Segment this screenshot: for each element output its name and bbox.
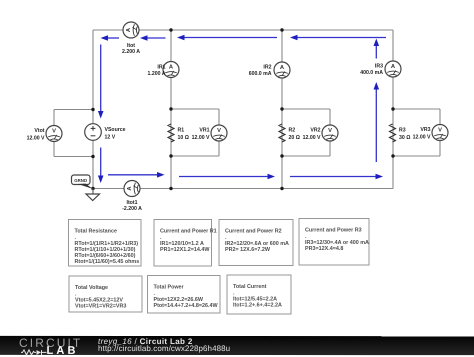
svg-text:IR2: IR2 (263, 65, 271, 71)
svg-text:Current and Power R3: Current and Power R3 (305, 228, 362, 234)
svg-text:Total Voltage: Total Voltage (75, 285, 108, 291)
svg-text:IR1=120/10=1.2 A: IR1=120/10=1.2 A (160, 241, 204, 247)
svg-text:10 Ω: 10 Ω (178, 135, 189, 141)
ammeter IR2 (274, 62, 290, 78)
ground symbol (86, 189, 100, 201)
svg-text:Current and Power R2: Current and Power R2 (225, 229, 282, 235)
svg-text:R2: R2 (289, 128, 296, 134)
svg-text:Ptot=12X2.2=26.6W: Ptot=12X2.2=26.6W (154, 297, 204, 303)
voltmeter VR3 (432, 125, 448, 141)
wire Vtot loop left (53, 110, 55, 157)
current arrow top R1-R2 (left) (177, 35, 277, 41)
current arrow top-left short (left) (101, 35, 120, 41)
current arrow bottom right segment (right) (290, 174, 383, 180)
wire R3 branch vertical (392, 30, 394, 189)
resistor R3 (390, 124, 396, 142)
svg-text:R3: R3 (399, 128, 406, 134)
text box Total Power (148, 276, 221, 314)
svg-text:1.200 A: 1.200 A (148, 71, 166, 77)
current arrow top R2-R3 (left) (290, 35, 386, 41)
svg-text:12 V: 12 V (105, 135, 116, 141)
svg-text:Ptot=14.4+7.2+4.8=26.4W: Ptot=14.4+7.2+4.8=26.4W (154, 303, 219, 309)
text box Total Resistance (69, 220, 142, 267)
wire VR1 loop bottom (171, 155, 219, 157)
wire VR1 loop top (171, 108, 219, 110)
svg-text:VR3: VR3 (420, 127, 430, 133)
svg-text:V: V (217, 128, 221, 134)
svg-text:Total Power: Total Power (154, 285, 185, 291)
ammeter IR3 (385, 61, 401, 77)
voltage source VSource (85, 124, 102, 141)
svg-text:V: V (328, 128, 332, 134)
current arrow top mid-left (left) (140, 35, 166, 41)
svg-text:600.0 mA: 600.0 mA (249, 71, 272, 77)
junction node VSource upper (91, 108, 94, 111)
svg-text:VR2: VR2 (310, 128, 320, 134)
svg-text:400.0 mA: 400.0 mA (360, 70, 383, 76)
junction node R1 lower (169, 154, 172, 157)
wire VR2 loop right (329, 109, 331, 156)
svg-text:IR2=12/20=.6A or 600 mA: IR2=12/20=.6A or 600 mA (225, 241, 289, 247)
svg-text:Current and Power R1: Current and Power R1 (160, 229, 217, 235)
svg-text:Total Current: Total Current (233, 284, 267, 290)
wire VR3 loop right (439, 109, 441, 156)
junction node bottom R2 (280, 187, 283, 190)
svg-text:Vtot=5.45X2.2=12V: Vtot=5.45X2.2=12V (75, 297, 123, 303)
junction node bottom R1 (169, 187, 172, 190)
wire top rail (93, 29, 393, 31)
svg-text:RTot=1/(1/10+1/20+1/30): RTot=1/(1/10+1/20+1/30) (75, 247, 136, 253)
svg-text:PR1=12X1.2=14.4W: PR1=12X1.2=14.4W (160, 247, 210, 253)
resistor R1 (168, 124, 174, 142)
junction node R3 lower (391, 154, 394, 157)
text box Current and Power R3 (299, 219, 369, 266)
svg-text:GRND: GRND (74, 178, 87, 183)
svg-text:IR3=12/30=.4A or 400 mA: IR3=12/30=.4A or 400 mA (305, 240, 369, 246)
wire R2 branch vertical (281, 30, 283, 189)
svg-text:VSource: VSource (105, 127, 126, 133)
wire VR1 loop right (218, 109, 220, 156)
ground GRND tag (72, 175, 94, 189)
junction node top R1 (169, 28, 172, 31)
svg-text:Vtot=VR1=VR2=VR3: Vtot=VR1=VR2=VR3 (75, 304, 126, 310)
ammeter IR1 (163, 62, 179, 78)
wire Vtot loop bottom (54, 156, 93, 158)
wire left branch vertical (92, 30, 94, 189)
current arrow left upper (down) (98, 45, 104, 119)
junction node ground corner (91, 187, 94, 190)
logo CIRCUIT (19, 336, 82, 350)
footer url text (98, 344, 230, 353)
svg-text:12.00 V: 12.00 V (27, 136, 45, 142)
svg-text:20 Ω: 20 Ω (289, 135, 300, 141)
junction node VSource lower (91, 155, 94, 158)
svg-text:RTot=1/(6/60+3/60+2/60): RTot=1/(6/60+3/60+2/60) (75, 253, 136, 259)
svg-text:Itot=1.2+.6+.4=2.2A: Itot=1.2+.6+.4=2.2A (233, 303, 282, 309)
svg-text:VR1: VR1 (199, 128, 209, 134)
junction node R3 upper (391, 107, 394, 110)
svg-text:12.00 V: 12.00 V (192, 135, 210, 141)
footer bar (0, 336, 474, 355)
wire VR2 loop top (282, 108, 330, 110)
svg-text:12.00 V: 12.00 V (413, 135, 431, 141)
svg-text:PR2= 12X.6=7.2W: PR2= 12X.6=7.2W (225, 247, 271, 253)
text box Current and Power R2 (219, 220, 293, 266)
voltmeter VR2 (322, 125, 338, 141)
svg-text:-2.200 A: -2.200 A (122, 206, 142, 212)
text box Current and Power R1 (154, 220, 217, 267)
wire Vtot loop top (54, 109, 93, 111)
voltmeter Vtot (46, 126, 62, 142)
junction node top R2 (280, 28, 283, 31)
svg-text:Total Resistance: Total Resistance (75, 229, 117, 235)
svg-text:12.00 V: 12.00 V (303, 135, 321, 141)
current arrow right long (up) (374, 82, 380, 162)
junction node R2 lower (280, 154, 283, 157)
junction node R1 upper (169, 107, 172, 110)
wire VR3 loop bottom (393, 155, 440, 157)
current arrow bottom left segment (right) (108, 172, 165, 178)
text box Total Voltage (69, 276, 142, 312)
svg-text:V: V (52, 128, 56, 134)
resistor R2 (279, 124, 285, 142)
text box Total Current (227, 275, 291, 314)
svg-text:Itot=12/5.45=2.2A: Itot=12/5.45=2.2A (233, 296, 277, 302)
ammeter Itot (123, 22, 139, 38)
svg-text:IR3: IR3 (375, 64, 383, 70)
wire bottom rail (93, 188, 393, 190)
wire R1 branch vertical (170, 30, 172, 189)
junction node R2 upper (280, 107, 283, 110)
svg-text:Rtot=1/(11/60)=5.45 ohms: Rtot=1/(11/60)=5.45 ohms (75, 259, 140, 265)
svg-text:30 Ω: 30 Ω (399, 135, 410, 141)
logo LAB (46, 344, 78, 356)
svg-text:Vtot: Vtot (34, 128, 44, 134)
wire VR3 loop top (393, 108, 440, 110)
svg-text:V: V (438, 127, 442, 133)
ammeter Itot1 (124, 181, 140, 197)
current arrow left lower (down) (98, 148, 104, 184)
voltmeter VR1 (211, 125, 227, 141)
current arrow bottom mid segment (right) (179, 174, 275, 180)
footer title text (98, 336, 193, 345)
logo resistor-diode glyph (20, 348, 46, 355)
svg-text:2.200 A: 2.200 A (122, 49, 140, 55)
svg-text:RTot=1/(1/R1+1/R2+1/R3): RTot=1/(1/R1+1/R2+1/R3) (75, 241, 139, 247)
wire VR2 loop bottom (282, 155, 330, 157)
svg-text:R1: R1 (178, 128, 185, 134)
current arrow right short (up) (374, 39, 380, 59)
svg-text:IR1: IR1 (157, 65, 165, 71)
svg-text:PR3=12X.4=4.8: PR3=12X.4=4.8 (305, 246, 343, 252)
